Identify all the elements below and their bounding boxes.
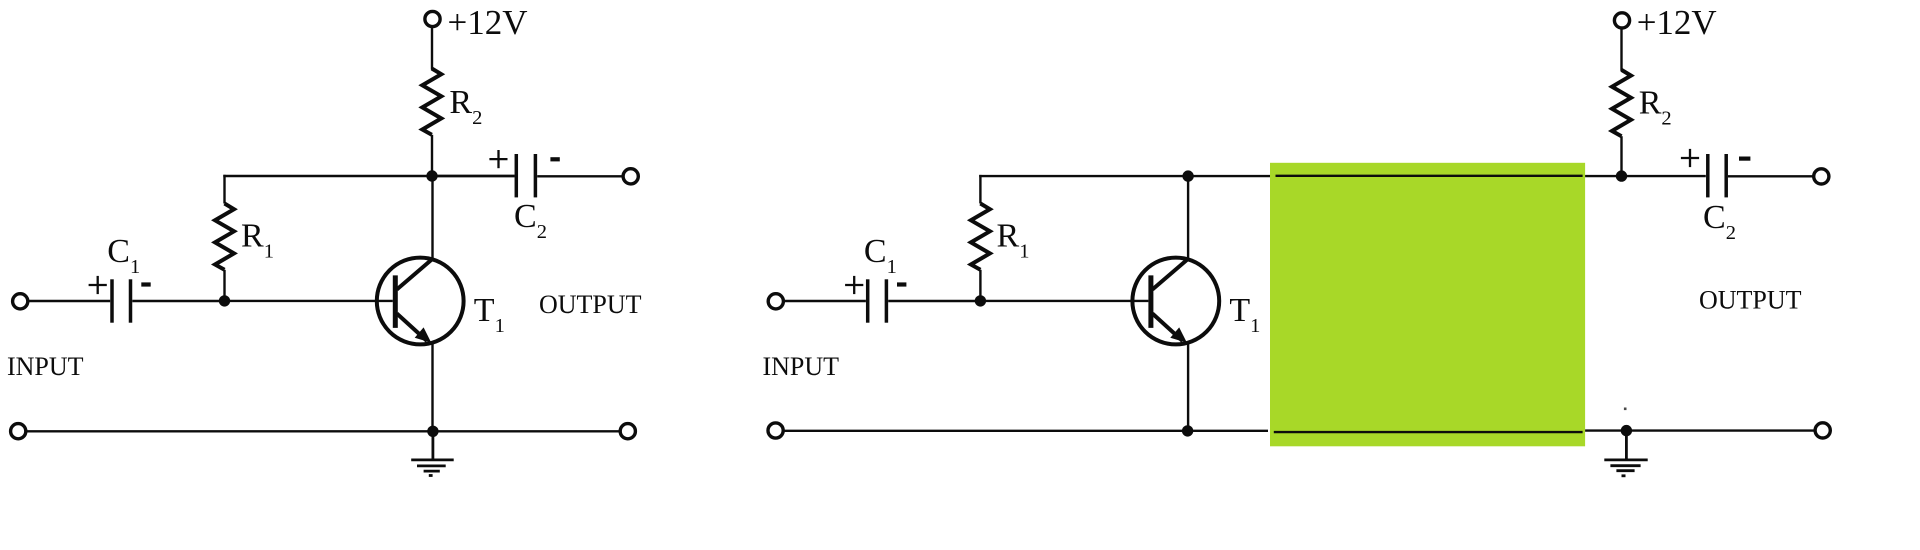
- polarity plus C2 right: [1681, 149, 1699, 167]
- wire bottom rail right segment b: [1585, 429, 1814, 431]
- speck above ground right: [1624, 408, 1627, 411]
- transistor T1 left: [377, 258, 464, 345]
- wire R1 to base node right: [979, 270, 981, 301]
- wire top rail right: [979, 175, 1270, 177]
- node R2 junction right: [1616, 170, 1627, 181]
- terminal input right: [768, 294, 783, 309]
- terminal bottom left right circuit: [768, 423, 783, 438]
- polarity minus C2 right: [1739, 157, 1750, 161]
- node emitter junction left: [427, 426, 438, 437]
- terminal bottom right right circuit: [1815, 423, 1830, 438]
- polarity minus C2 left: [550, 157, 559, 161]
- wire input to C1 left: [29, 300, 110, 302]
- wire top corner to R1 right: [979, 175, 981, 204]
- terminal output right: [1814, 169, 1829, 184]
- svg-text:INPUT: INPUT: [7, 352, 84, 381]
- capacitor C2 left: [516, 154, 535, 197]
- node base junction right: [975, 295, 986, 306]
- terminal +12V left: [425, 11, 440, 26]
- wire collector right: [1187, 176, 1189, 259]
- wire top rail inside highlight: [1276, 175, 1583, 177]
- wire C2 to output left: [537, 175, 622, 177]
- wire top rail to R2 node right: [1585, 175, 1706, 177]
- terminal input left: [13, 294, 28, 309]
- wire base junction to transistor left: [225, 300, 393, 302]
- svg-text:+12V: +12V: [448, 3, 528, 42]
- node collector junction left: [426, 170, 437, 181]
- polarity plus C1 left: [89, 276, 107, 294]
- capacitor C2 right: [1708, 154, 1726, 197]
- polarity minus C1 right: [897, 282, 906, 286]
- wire C1 to base junction right: [888, 300, 981, 302]
- wire C2 to output right: [1728, 175, 1813, 177]
- svg-text:+12V: +12V: [1637, 3, 1717, 42]
- capacitor C1 left: [112, 279, 131, 322]
- wire bottom rail inside highlight: [1274, 431, 1583, 433]
- polarity minus C1 left: [141, 282, 150, 286]
- wire top corner to R1 left: [223, 175, 225, 204]
- wire C1 to base junction left: [132, 300, 225, 302]
- resistor R2 left: [422, 69, 441, 135]
- wire node to C2 left: [432, 175, 515, 177]
- polarity plus C2 left: [489, 150, 507, 168]
- terminal bottom left corner: [11, 424, 26, 439]
- wire +12V to R2 left: [431, 27, 433, 70]
- ground right: [1604, 431, 1647, 476]
- terminal bottom right corner left circuit: [620, 424, 635, 439]
- wire emitter left: [431, 343, 433, 432]
- capacitor C1 right: [868, 279, 887, 322]
- wire emitter right: [1187, 343, 1189, 431]
- wire R2 to node right: [1620, 136, 1622, 176]
- ground left: [411, 431, 454, 475]
- node ground junction right: [1621, 425, 1632, 436]
- wire top rail left: [223, 175, 514, 177]
- svg-text:OUTPUT: OUTPUT: [1699, 285, 1802, 314]
- terminal +12V right: [1614, 13, 1629, 28]
- node emitter junction right: [1182, 425, 1193, 436]
- wire collector left: [431, 176, 433, 260]
- node base junction left: [219, 295, 230, 306]
- polarity plus C1 right: [845, 276, 863, 294]
- transistor T1 right: [1132, 258, 1219, 345]
- node collector junction right: [1182, 170, 1193, 181]
- wire base junction to transistor right: [980, 300, 1148, 302]
- svg-text:OUTPUT: OUTPUT: [539, 290, 642, 319]
- wire bottom rail left: [27, 430, 619, 432]
- resistor R1 right: [971, 204, 990, 270]
- resistor R1 left: [215, 204, 234, 270]
- wire bottom rail right segment a: [784, 430, 1268, 432]
- highlight box: [1270, 163, 1585, 447]
- resistor R2 right: [1612, 70, 1631, 136]
- wire R2 to collector node left: [431, 135, 433, 176]
- svg-text:INPUT: INPUT: [763, 352, 840, 381]
- terminal output left: [623, 169, 638, 184]
- wire input to C1 right: [785, 300, 866, 302]
- wire R1 to base node left: [223, 270, 225, 301]
- wire +12V to R2 right: [1620, 28, 1622, 71]
